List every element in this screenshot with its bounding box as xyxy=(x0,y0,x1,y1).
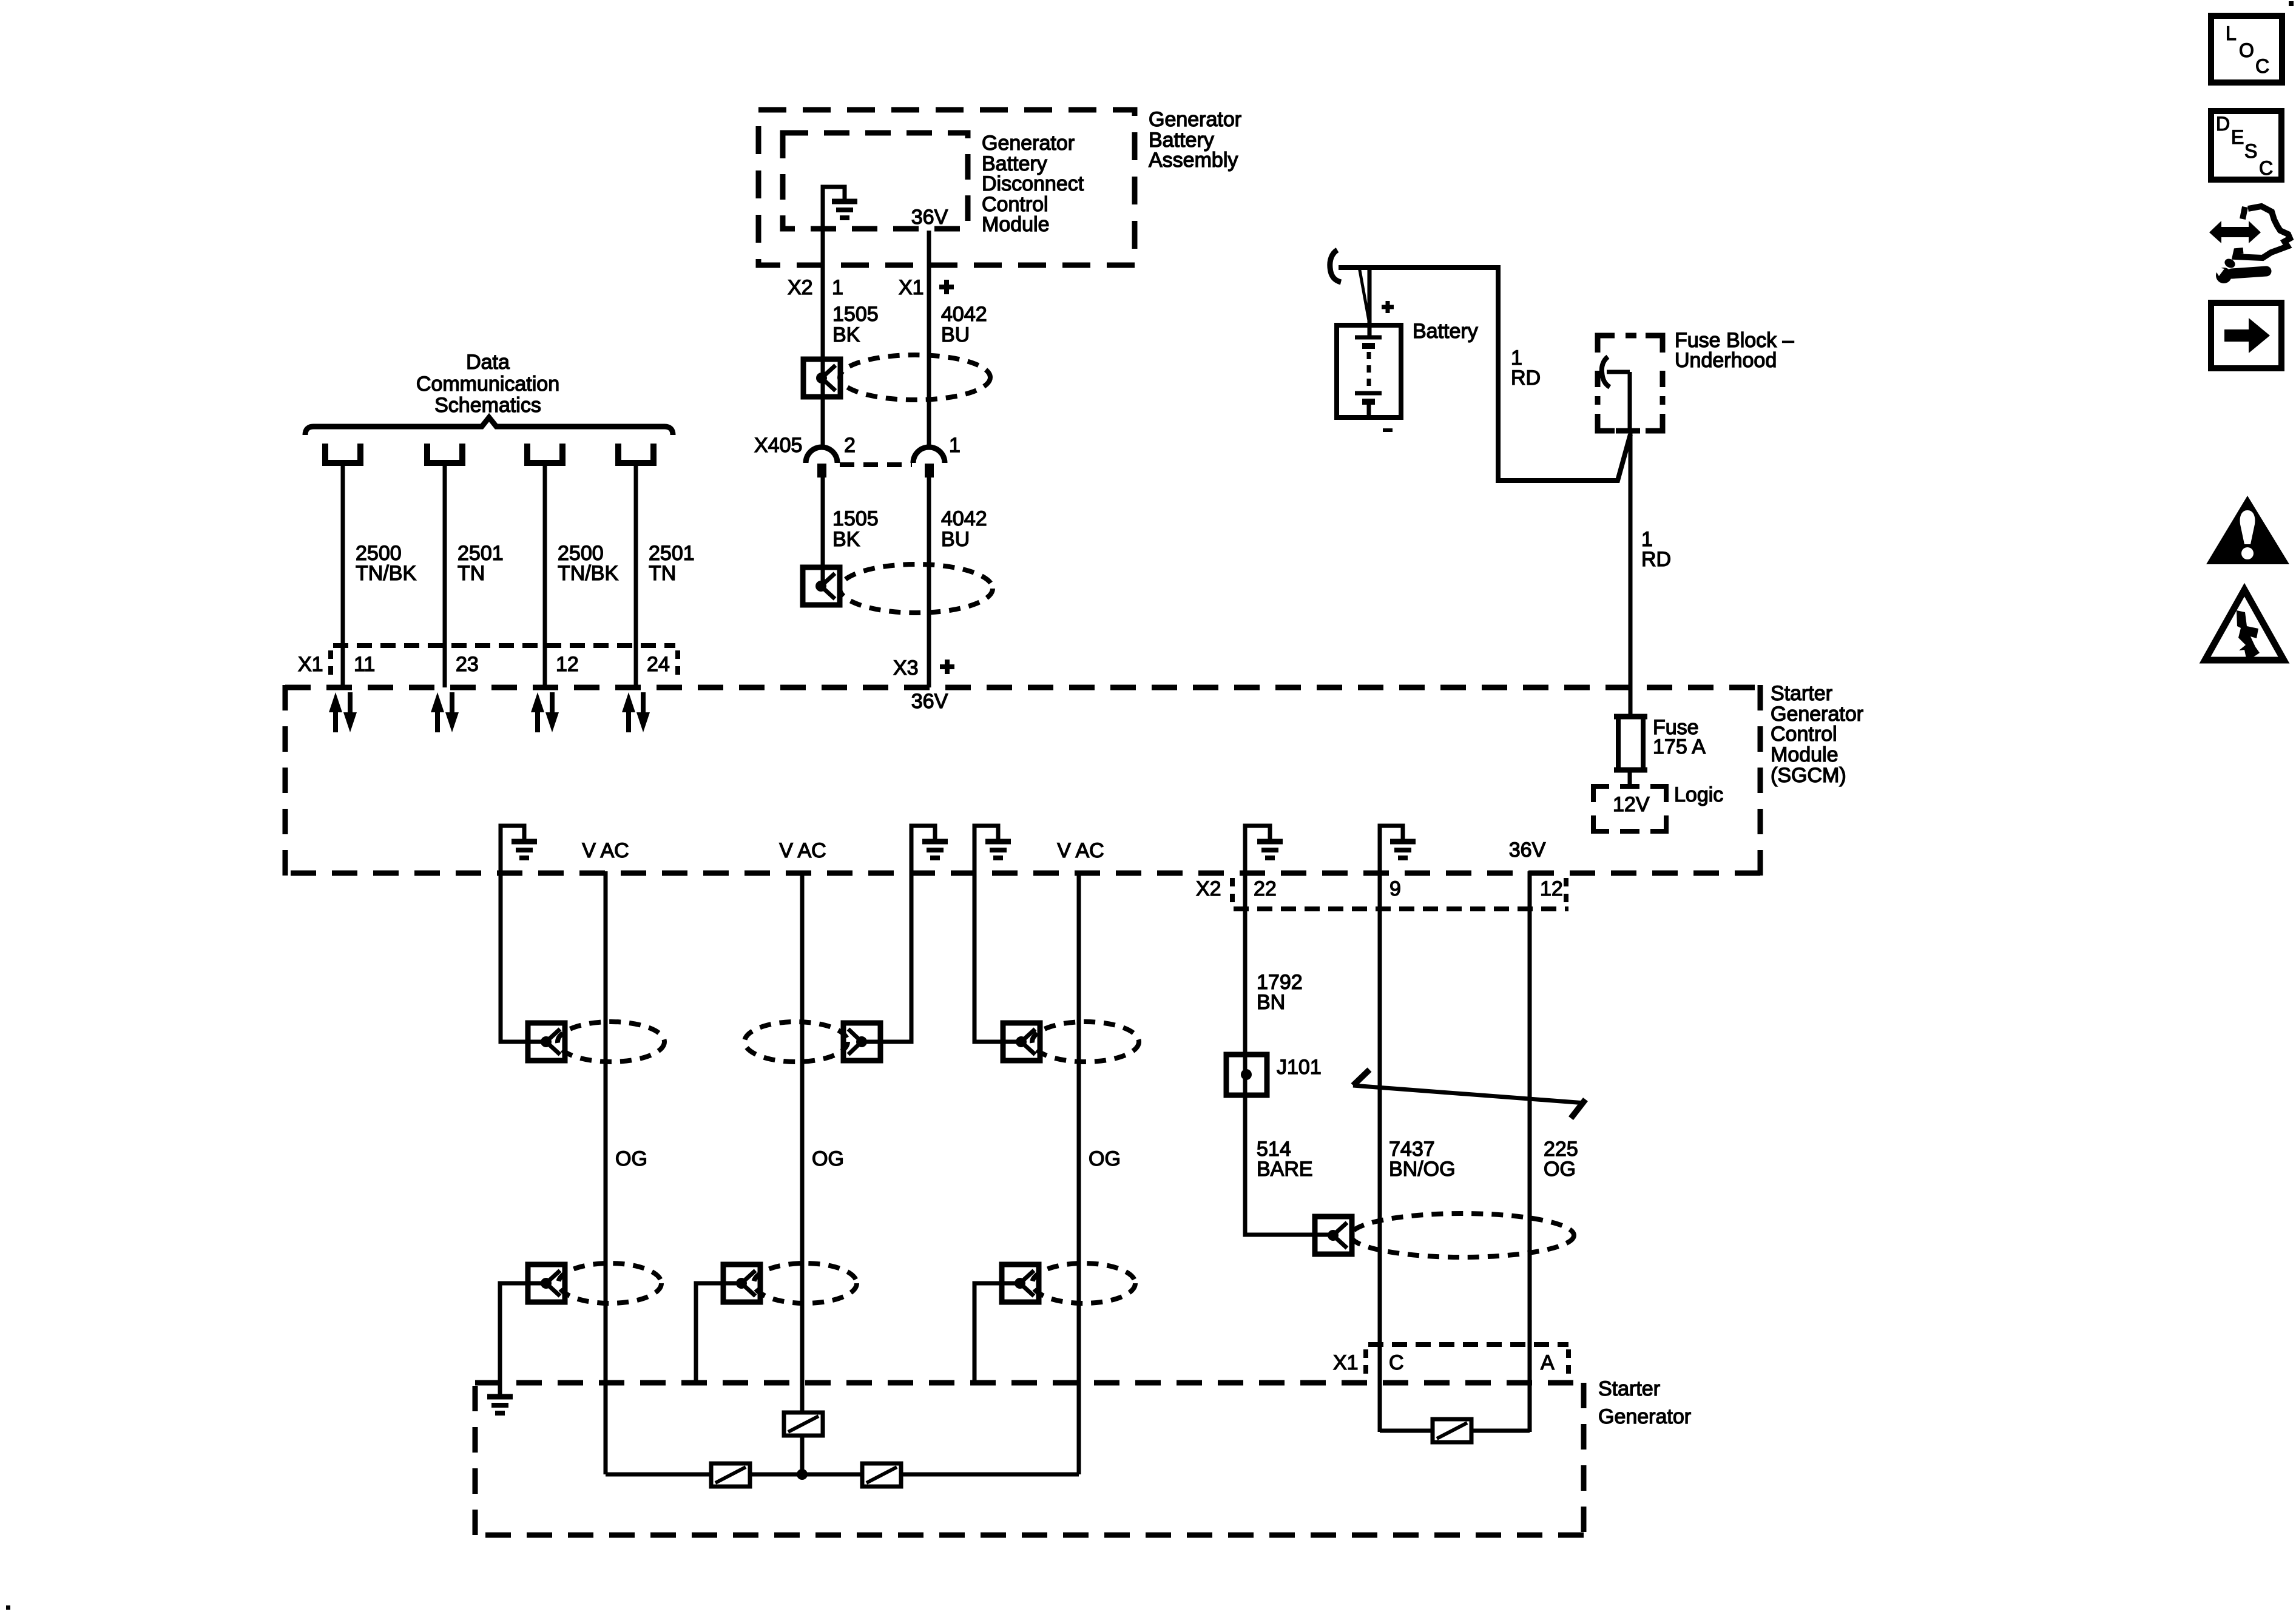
connector X405 dashed link xyxy=(840,462,912,467)
wire phase B (OG) xyxy=(800,871,805,1474)
value label 2501 TN xyxy=(649,542,695,585)
svg-text:Battery: Battery xyxy=(1413,320,1478,343)
svg-text:J101: J101 xyxy=(1277,1056,1322,1079)
node 12V logic supply dashed box xyxy=(1593,786,1666,831)
svg-text:X1: X1 xyxy=(298,653,323,676)
wire 2500 TN/BK serial data wire xyxy=(341,463,345,687)
svg-text:X1: X1 xyxy=(899,276,924,299)
ground symbol inside starter generator xyxy=(487,1381,513,1413)
wire 2500 TN/BK serial data wire (2) xyxy=(543,463,547,687)
pointer arrow between wires 9 and 12 xyxy=(1353,1070,1585,1118)
label Generator Battery Disconnect Control Module xyxy=(982,132,1084,236)
splice (phase C shield, upper) xyxy=(1003,1023,1040,1061)
splice (514 BARE to cable shield) xyxy=(1315,1217,1352,1254)
svg-text:Generator: Generator xyxy=(982,132,1075,155)
svg-text:4042: 4042 xyxy=(941,507,987,530)
svg-text:Control: Control xyxy=(1771,723,1837,746)
svg-text:12: 12 xyxy=(556,653,579,676)
svg-text:1505: 1505 xyxy=(832,507,879,530)
svg-text:X2: X2 xyxy=(1196,877,1221,900)
svg-text:BN/OG: BN/OG xyxy=(1389,1158,1456,1181)
svg-text:Communication: Communication xyxy=(416,373,559,396)
svg-text:BARE: BARE xyxy=(1257,1158,1313,1181)
svg-text:Schematics: Schematics xyxy=(434,394,541,417)
wire SGCM internal ground C xyxy=(974,826,1022,1042)
module Starter Generator dashed box xyxy=(475,1383,1584,1535)
fusible link hook at battery positive xyxy=(1330,250,1341,282)
svg-text:V AC: V AC xyxy=(1057,839,1104,862)
splice (1505 BK shield drain, upper) xyxy=(803,359,840,397)
label Generator Battery Assembly xyxy=(1149,108,1241,172)
bidirectional arrows at pin 23 xyxy=(431,692,459,732)
svg-text:O: O xyxy=(2239,39,2254,61)
svg-text:E: E xyxy=(2231,126,2244,148)
svg-text:V AC: V AC xyxy=(582,839,629,862)
svg-text:Starter: Starter xyxy=(1771,682,1832,705)
value label 1505 BK (upper) xyxy=(832,303,879,346)
svg-text:BN: BN xyxy=(1257,991,1285,1014)
icon DESC box xyxy=(2211,111,2281,180)
svg-text:BU: BU xyxy=(941,528,970,551)
connector X1 (starter generator) dashed box xyxy=(1366,1345,1568,1379)
splice (phase A shield, upper) xyxy=(528,1023,565,1061)
svg-text:Module: Module xyxy=(1771,743,1838,766)
svg-text:2: 2 xyxy=(844,434,856,457)
stator winding L1 xyxy=(711,1463,750,1487)
value label 225 OG xyxy=(1544,1138,1578,1181)
svg-text:36V: 36V xyxy=(911,690,948,713)
wire ground link inside GBDCM xyxy=(823,187,845,231)
svg-text:L: L xyxy=(2226,22,2237,44)
shield ellipse (phase C lower) xyxy=(1032,1263,1135,1303)
wire phase C (OG) xyxy=(1077,871,1081,1474)
wire 1505 BK upper segment xyxy=(821,231,825,448)
wire shield drain B xyxy=(696,1283,742,1385)
svg-text:Logic: Logic xyxy=(1674,783,1723,806)
shield ellipse (phase A upper) xyxy=(558,1022,664,1062)
svg-text:TN: TN xyxy=(458,562,485,585)
label Fuse 175 A xyxy=(1653,716,1706,758)
wire fuse block to SGCM fuse (1 RD) xyxy=(1629,432,1633,717)
connector X405 male pin (1) xyxy=(925,464,934,478)
module Fuse Block - Underhood dashed box xyxy=(1598,336,1663,431)
node junction on stator bus xyxy=(797,1469,808,1480)
module Generator Battery Assembly dashed box xyxy=(758,110,1135,265)
value label 2500 TN/BK xyxy=(356,542,416,585)
module Generator Battery Disconnect Control Module dashed box xyxy=(783,133,968,229)
stator winding L3 xyxy=(862,1463,901,1487)
icon electrical shock triangle xyxy=(2205,590,2284,661)
connector X405 terminal arc (pin 2) xyxy=(806,447,837,463)
fuse F 175A symbol xyxy=(1614,717,1647,770)
connector X2 (SGCM) dashed box xyxy=(1232,878,1568,909)
svg-text:TN: TN xyxy=(649,562,676,585)
value label 1 RD (battery feed) xyxy=(1511,346,1541,390)
wire shield drain A xyxy=(500,1283,547,1397)
svg-text:(SGCM): (SGCM) xyxy=(1771,764,1846,787)
ground symbol G401 (SGCM phase A) xyxy=(512,826,537,858)
svg-text:RD: RD xyxy=(1511,366,1541,390)
wire phase A (OG) xyxy=(604,871,608,1474)
wire inside fuse block xyxy=(1628,372,1632,433)
svg-text:Underhood: Underhood xyxy=(1675,349,1777,372)
ground symbol (SGCM pin 22) xyxy=(1257,826,1283,858)
value label 1792 BN xyxy=(1257,971,1303,1014)
wire 4042 BU upper segment xyxy=(927,231,931,448)
svg-text:Data: Data xyxy=(466,351,510,374)
ground symbol (SGCM phase B) xyxy=(922,826,948,858)
svg-text:C: C xyxy=(1389,1351,1404,1374)
module Starter Generator Control Module (SGCM) dashed outline xyxy=(285,685,1760,876)
wire rotor loop xyxy=(1380,1431,1530,1432)
pin + label (GBDCM X1) xyxy=(939,280,954,294)
wire 2501 TN serial data wire (2) xyxy=(634,463,638,687)
svg-text:BK: BK xyxy=(832,323,860,346)
svg-text:12: 12 xyxy=(1540,877,1563,900)
wire SGCM internal ground B xyxy=(862,826,935,1042)
splice (1505 BK shield drain, lower) xyxy=(803,567,840,605)
svg-text:12V: 12V xyxy=(1613,793,1650,816)
data connector lug 3 xyxy=(527,444,562,463)
bidirectional arrows at pin 24 xyxy=(622,692,650,732)
svg-text:D: D xyxy=(2216,113,2230,135)
value label 4042 BU (lower) xyxy=(941,507,987,551)
svg-text:Module: Module xyxy=(982,213,1050,236)
svg-text:Assembly: Assembly xyxy=(1149,149,1238,172)
splice J101 xyxy=(1226,1055,1267,1095)
brace under Data Communication Schematics xyxy=(305,417,673,435)
svg-text:OG: OG xyxy=(1544,1158,1576,1181)
data connector lug 1 xyxy=(325,444,360,463)
svg-text:BK: BK xyxy=(832,528,860,551)
shield ellipse (upper) xyxy=(840,355,990,400)
shield ellipse (phase C upper) xyxy=(1032,1022,1139,1062)
svg-text:Generator: Generator xyxy=(1149,108,1241,131)
label Fuse Block - Underhood xyxy=(1675,329,1794,372)
svg-text:X3: X3 xyxy=(893,656,919,680)
stator winding L2 xyxy=(784,1412,823,1436)
wire 1505 BK lower segment xyxy=(821,478,825,586)
value label 4042 BU (upper) xyxy=(941,303,987,346)
value label 2500 TN/BK xyxy=(558,542,618,585)
label Starter Generator Control Module (SGCM) xyxy=(1771,682,1863,787)
bidirectional arrows at pin 12 xyxy=(531,692,559,732)
wire battery positive post xyxy=(1368,268,1372,337)
svg-text:1: 1 xyxy=(949,434,961,457)
connector X1 (SGCM data) dashed box xyxy=(331,646,678,680)
label - (battery negative) xyxy=(1383,428,1393,432)
shield ellipse (phase B lower) xyxy=(754,1263,857,1303)
shield ellipse (phase A lower) xyxy=(558,1263,661,1303)
ground symbol (SGCM pin 9) xyxy=(1390,826,1416,858)
svg-text:36V: 36V xyxy=(911,206,948,229)
wire battery positive to fuse block (top run) xyxy=(1339,268,1630,481)
pin + label (SGCM X3) xyxy=(940,660,954,674)
connector X405 terminal arc (pin 1) xyxy=(913,447,945,463)
svg-text:V AC: V AC xyxy=(779,839,826,862)
svg-text:1505: 1505 xyxy=(832,303,879,326)
wire battery positive diagonal lead xyxy=(1359,267,1369,320)
svg-text:X2: X2 xyxy=(788,276,813,299)
label Starter Generator xyxy=(1598,1377,1691,1428)
battery B1 internal plates xyxy=(1355,337,1382,417)
wire SGCM internal ground (pin 22) xyxy=(1245,826,1333,1235)
icon LOC box xyxy=(2211,16,2282,83)
svg-text:Starter: Starter xyxy=(1598,1377,1660,1400)
corner mark (top right) xyxy=(2289,1,2294,6)
shield ellipse (lower) xyxy=(840,564,993,613)
ground symbol inside GBDCM xyxy=(832,186,857,218)
icon connector service (double arrow) xyxy=(2209,221,2261,243)
svg-text:OG: OG xyxy=(615,1147,647,1170)
value label 1505 BK (lower) xyxy=(832,507,879,551)
svg-text:9: 9 xyxy=(1389,877,1401,900)
connector X405 male pin (2) xyxy=(817,464,826,478)
data connector lug 4 xyxy=(618,444,653,463)
corner mark (bottom left) xyxy=(6,1605,10,1610)
splice (phase A shield, lower) xyxy=(528,1264,565,1302)
svg-text:22: 22 xyxy=(1254,877,1277,900)
wire 2501 TN serial data wire xyxy=(443,463,447,687)
svg-text:S: S xyxy=(2244,140,2257,162)
wire SGCM internal ground (pin 9) xyxy=(1380,826,1403,1432)
icon warning triangle xyxy=(2206,496,2289,564)
svg-text:24: 24 xyxy=(647,653,670,676)
svg-text:A: A xyxy=(1541,1351,1555,1374)
svg-text:OG: OG xyxy=(812,1147,844,1170)
svg-text:RD: RD xyxy=(1641,548,1671,571)
wire shield drain C xyxy=(974,1283,1021,1385)
ground symbol (SGCM phase C) xyxy=(985,826,1011,858)
label + (battery positive) xyxy=(1382,301,1394,313)
svg-text:4042: 4042 xyxy=(941,303,987,326)
svg-text:36V: 36V xyxy=(1509,839,1546,862)
shield ellipse (phase B upper) xyxy=(745,1022,848,1062)
icon connector service (wrench) xyxy=(2213,257,2266,283)
svg-text:OG: OG xyxy=(1089,1147,1121,1170)
splice (phase B shield, upper) xyxy=(843,1023,880,1061)
label Data Communication Schematics xyxy=(416,351,559,417)
svg-text:1: 1 xyxy=(832,276,843,299)
shield ellipse (starter generator cable) xyxy=(1351,1213,1574,1257)
svg-text:11: 11 xyxy=(354,653,375,676)
splice (phase B shield, lower) xyxy=(723,1264,760,1302)
svg-text:TN/BK: TN/BK xyxy=(558,562,618,585)
value label 1 RD (SGCM feed) xyxy=(1641,528,1671,571)
wire 4042 BU lower segment xyxy=(927,478,931,687)
svg-text:TN/BK: TN/BK xyxy=(356,562,416,585)
bidirectional arrows at pin 11 xyxy=(329,692,357,732)
wire fuse to 12V logic supply xyxy=(1628,770,1632,786)
rotor field winding xyxy=(1433,1419,1471,1442)
value label 2501 TN xyxy=(458,542,504,585)
wire stator bus xyxy=(606,1473,1079,1477)
svg-text:X1: X1 xyxy=(1333,1351,1359,1374)
wire 225 OG (36V feed) xyxy=(1528,871,1532,1432)
fusible link hook inside fuse block xyxy=(1602,357,1630,387)
value label 514 BARE xyxy=(1257,1138,1313,1181)
svg-text:Generator: Generator xyxy=(1598,1405,1691,1428)
svg-text:BU: BU xyxy=(941,323,970,346)
splice (phase C shield, lower) xyxy=(1002,1264,1039,1302)
value label 7437 BN/OG xyxy=(1389,1138,1456,1181)
svg-text:X405: X405 xyxy=(754,434,802,457)
svg-text:Disconnect: Disconnect xyxy=(982,172,1084,195)
svg-text:23: 23 xyxy=(456,653,479,676)
icon connector service (hand outline) xyxy=(2235,206,2290,258)
svg-text:C: C xyxy=(2259,157,2273,179)
battery B1 case xyxy=(1337,325,1401,417)
icon forward arrow box xyxy=(2211,303,2281,368)
wire SGCM internal ground A xyxy=(501,826,547,1042)
svg-text:C: C xyxy=(2255,55,2269,77)
svg-text:175 A: 175 A xyxy=(1653,735,1706,758)
data connector lug 2 xyxy=(427,444,462,463)
